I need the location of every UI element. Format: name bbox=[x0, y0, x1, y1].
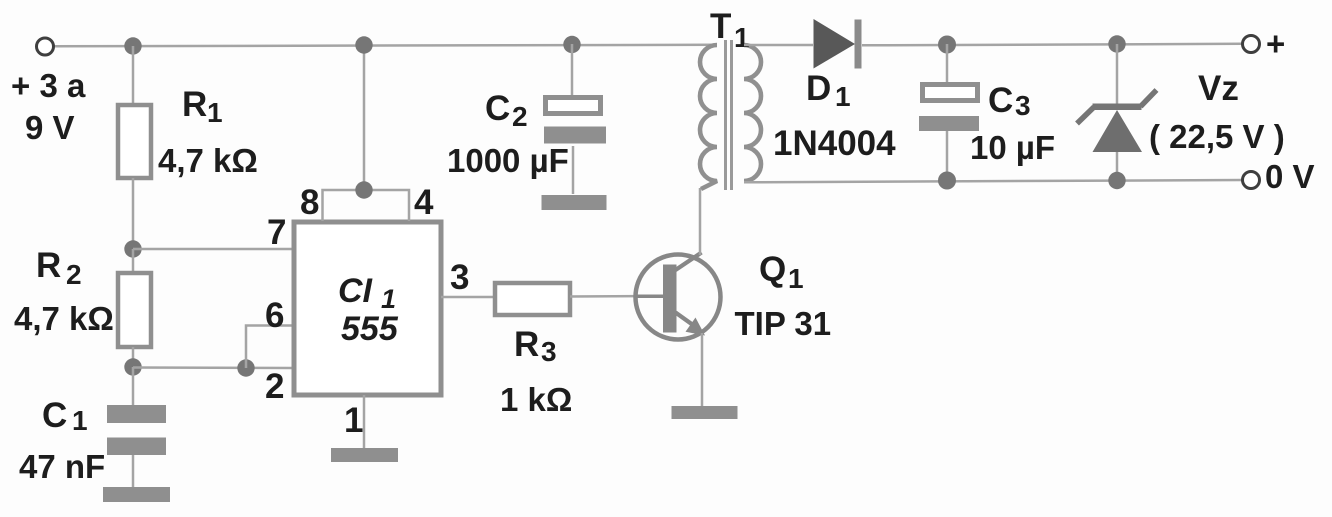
capacitor C1 bbox=[107, 405, 166, 455]
capacitor C3 bbox=[919, 85, 979, 132]
svg-text:1: 1 bbox=[72, 405, 88, 436]
svg-text:R: R bbox=[182, 85, 207, 124]
svg-text:555: 555 bbox=[341, 310, 399, 348]
node A (top rail / R1 junction) bbox=[124, 37, 141, 54]
input terminal bbox=[37, 38, 54, 55]
wire zener bottom bbox=[1116, 152, 1119, 181]
node E (top rail / bracket tap) bbox=[355, 36, 372, 53]
C1 refdes label bbox=[42, 396, 88, 436]
resistor R2 bbox=[118, 273, 151, 347]
plus output label bbox=[1266, 25, 1285, 62]
pin 1 label bbox=[344, 401, 363, 440]
wire top rail left bbox=[53, 45, 717, 47]
svg-text:Q: Q bbox=[759, 250, 786, 289]
svg-text:3: 3 bbox=[1015, 90, 1031, 121]
svg-text:47 nF: 47 nF bbox=[19, 448, 105, 485]
wire pin 1 down bbox=[363, 395, 366, 449]
C2 value label 1000 uF bbox=[447, 142, 569, 179]
svg-text:7: 7 bbox=[267, 213, 286, 252]
svg-text:T: T bbox=[710, 7, 731, 46]
C3 refdes label bbox=[988, 81, 1031, 121]
svg-text:6: 6 bbox=[265, 296, 284, 335]
svg-text:1000 µF: 1000 µF bbox=[447, 142, 569, 179]
svg-text:8: 8 bbox=[300, 183, 319, 222]
T1 refdes label bbox=[710, 7, 750, 53]
svg-text:0 V: 0 V bbox=[1265, 158, 1315, 195]
node G (top rail / C2 tap) bbox=[563, 36, 580, 53]
wire C3 top bbox=[946, 44, 949, 84]
svg-text:2: 2 bbox=[66, 259, 82, 290]
R3 refdes label bbox=[514, 325, 557, 367]
svg-text:2: 2 bbox=[265, 367, 284, 406]
ground (C2) bbox=[542, 195, 607, 210]
svg-text:C: C bbox=[42, 396, 67, 435]
svg-text:D: D bbox=[806, 69, 831, 108]
wire R1 top bbox=[132, 46, 135, 106]
ground (C1) bbox=[103, 487, 170, 502]
svg-text:C: C bbox=[485, 89, 510, 128]
D1 refdes label bbox=[806, 69, 851, 112]
wire secondary top to diode bbox=[744, 44, 813, 47]
resistor R1 bbox=[118, 105, 151, 178]
wire top rail to bracket bbox=[363, 45, 366, 190]
svg-text:R: R bbox=[514, 325, 539, 364]
resistor R3 bbox=[495, 283, 570, 315]
wire pin 3 to R3 bbox=[441, 296, 494, 299]
wire to pin 7 bbox=[133, 248, 292, 251]
CI1 refdes text inside IC bbox=[338, 272, 399, 348]
0 V output label bbox=[1265, 158, 1315, 195]
wire top rail right bbox=[862, 44, 1243, 46]
diode D1 bbox=[814, 19, 862, 69]
wire C2 top bbox=[571, 44, 574, 96]
node H (top rail / C3) bbox=[938, 36, 956, 54]
C1 value label 47 nF bbox=[19, 448, 105, 485]
pin 6 label bbox=[265, 296, 284, 335]
capacitor C2 bbox=[544, 98, 606, 144]
R2 value label 4,7 kOhm bbox=[14, 300, 114, 337]
wire C1 bottom bbox=[132, 455, 135, 488]
C2 refdes label bbox=[485, 89, 528, 132]
wire R2 top bbox=[132, 249, 135, 273]
svg-text:+: + bbox=[1266, 25, 1285, 62]
pin 3 label bbox=[450, 258, 469, 297]
svg-text:1: 1 bbox=[835, 81, 851, 112]
node J (top rail / zener) bbox=[1108, 35, 1125, 52]
transformer T1 core bbox=[726, 40, 732, 190]
svg-text:1: 1 bbox=[207, 97, 223, 128]
pin 4 label bbox=[414, 183, 434, 222]
svg-text:TIP 31: TIP 31 bbox=[735, 305, 832, 342]
ground (Q1 emitter) bbox=[672, 406, 738, 419]
svg-text:CI: CI bbox=[338, 272, 374, 310]
wire to pin 2 bbox=[133, 366, 292, 369]
svg-text:1 kΩ: 1 kΩ bbox=[500, 381, 572, 418]
transformer T1 primary winding bbox=[700, 45, 717, 189]
wire C3 bottom bbox=[946, 131, 949, 181]
svg-text:C: C bbox=[988, 81, 1013, 120]
node I (bottom rail / C3) bbox=[938, 172, 956, 190]
output terminal 0V bbox=[1243, 172, 1260, 189]
svg-text:10 µF: 10 µF bbox=[970, 129, 1055, 166]
svg-text:+ 3 a: + 3 a bbox=[11, 67, 86, 104]
R2 refdes label bbox=[36, 246, 82, 290]
IC CI1 (555 timer) body bbox=[294, 222, 441, 395]
Q1 refdes label bbox=[759, 250, 804, 294]
wire Q1 emitter down bbox=[701, 333, 704, 407]
pin 7 label bbox=[267, 213, 286, 252]
wire R3 to Q1 base bbox=[570, 295, 664, 298]
R3 value label 1 kOhm bbox=[500, 381, 572, 418]
transformer T1 secondary winding bbox=[744, 45, 761, 181]
pin 8 label bbox=[300, 183, 319, 222]
wire C1 top bbox=[132, 367, 135, 406]
svg-text:1: 1 bbox=[788, 263, 804, 294]
wire R1 bottom bbox=[132, 178, 135, 249]
svg-text:9 V: 9 V bbox=[25, 109, 75, 146]
wire zener top bbox=[1116, 44, 1119, 106]
zener diode Vz bbox=[1077, 90, 1157, 152]
svg-text:2: 2 bbox=[512, 101, 528, 132]
svg-text:( 22,5 V ): ( 22,5 V ) bbox=[1149, 118, 1285, 155]
svg-text:3: 3 bbox=[541, 336, 557, 367]
svg-text:4,7 kΩ: 4,7 kΩ bbox=[14, 300, 114, 337]
svg-text:4: 4 bbox=[414, 183, 434, 222]
C3 value label 10 uF bbox=[970, 129, 1055, 166]
output terminal plus bbox=[1243, 36, 1260, 53]
D1 value label 1N4004 bbox=[773, 124, 896, 163]
R1 refdes label bbox=[182, 85, 223, 128]
svg-text:1N4004: 1N4004 bbox=[773, 124, 896, 163]
svg-text:3: 3 bbox=[450, 258, 469, 297]
input voltage label "+ 3 a / 9 V" bbox=[11, 67, 86, 146]
wire Q1 collector to T1 primary bbox=[699, 188, 702, 255]
svg-text:R: R bbox=[36, 246, 61, 285]
svg-text:1: 1 bbox=[734, 22, 750, 53]
node C (R2/C1/pin2 junction) bbox=[124, 358, 141, 375]
node D (pin6/pin2 junction) bbox=[237, 359, 254, 376]
pin 2 label bbox=[265, 367, 284, 406]
Vz refdes label bbox=[1198, 69, 1239, 108]
svg-text:Vz: Vz bbox=[1198, 69, 1239, 108]
R1 value label 4,7 kOhm bbox=[158, 142, 258, 179]
wire R2 bottom bbox=[132, 347, 135, 367]
node K (bottom rail / zener) bbox=[1108, 172, 1125, 189]
wire pins 8-4 bracket bbox=[323, 190, 410, 221]
wire bottom rail bbox=[744, 180, 1243, 182]
ground (IC pin 1) bbox=[331, 448, 398, 462]
Q1 value label TIP 31 bbox=[735, 305, 832, 342]
wire C2 bottom bbox=[572, 146, 575, 194]
transistor Q1 bbox=[636, 253, 721, 340]
svg-text:4,7 kΩ: 4,7 kΩ bbox=[158, 142, 258, 179]
wire to pin 6 bbox=[246, 326, 292, 369]
node B (R1/R2/pin7 junction) bbox=[124, 240, 141, 257]
svg-text:1: 1 bbox=[344, 401, 363, 440]
Vz value label ( 22,5 V ) bbox=[1149, 118, 1285, 155]
node F (bracket junction) bbox=[355, 181, 372, 198]
